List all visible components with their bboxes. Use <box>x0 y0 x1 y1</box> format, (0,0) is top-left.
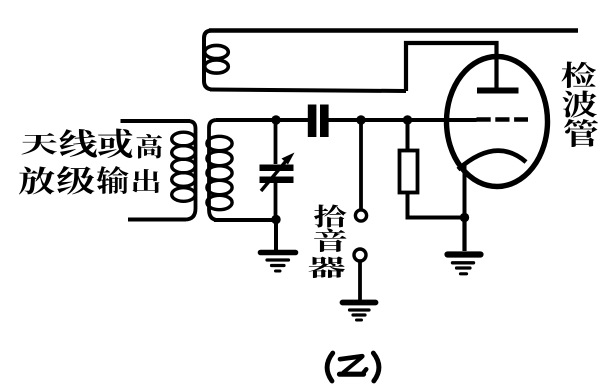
tube V1 envelope <box>447 57 548 187</box>
wire: main grid line C2 to tube <box>329 118 477 122</box>
ground: pickup <box>343 303 376 321</box>
wire: jack lower to ground <box>358 261 362 301</box>
terminal: pickup jack upper <box>355 210 366 221</box>
wire: grid node to resistor <box>406 120 410 151</box>
wire: cathode node to ground <box>462 218 466 252</box>
tube V1 filament arc <box>458 151 526 170</box>
wire: bottom node to ground <box>274 220 278 251</box>
label: detector tube 检波管 <box>561 62 598 148</box>
wire: primary bottom lead (antenna input) <box>128 218 186 222</box>
terminal: pickup jack lower <box>354 249 366 261</box>
ground: tuned circuit <box>261 253 296 272</box>
resistor R1 grid leak <box>400 151 418 193</box>
wire: filament/cathode lead <box>463 163 467 218</box>
wire: resistor bottom to cathode node <box>408 192 462 218</box>
wire: plate connection (riser, step, drop to plate) <box>406 43 497 91</box>
wire: pickup node to jack <box>359 120 363 210</box>
junction: tuned circuit bottom node <box>271 215 280 224</box>
label: pickup 拾音器 <box>309 205 347 278</box>
tube V1 grid (dashed) <box>477 117 529 122</box>
wire: B+ top rail <box>209 28 578 33</box>
tube V1 plate bar <box>477 88 519 94</box>
junction: pickup node <box>356 115 365 124</box>
variable capacitor C1 <box>260 120 295 216</box>
junction: cathode node <box>460 213 469 222</box>
wire: secondary bottom lead <box>214 218 276 222</box>
ground: cathode <box>448 255 481 274</box>
wire: secondary top lead to C2 <box>216 118 308 122</box>
capacitor C2 coupling <box>308 105 329 138</box>
wire: choke bottom lead to plate riser <box>210 90 406 92</box>
label: antenna input text 天线或高/放级输出 <box>19 128 162 194</box>
junction: tuned circuit top node <box>271 115 280 124</box>
transformer T1 secondary <box>207 120 232 220</box>
caption: (乙) <box>327 353 379 381</box>
wire: primary top lead (antenna input) <box>121 119 191 123</box>
junction: grid node <box>403 115 412 124</box>
inductor L1 plate choke <box>204 31 228 90</box>
transformer T1 primary <box>172 121 196 220</box>
